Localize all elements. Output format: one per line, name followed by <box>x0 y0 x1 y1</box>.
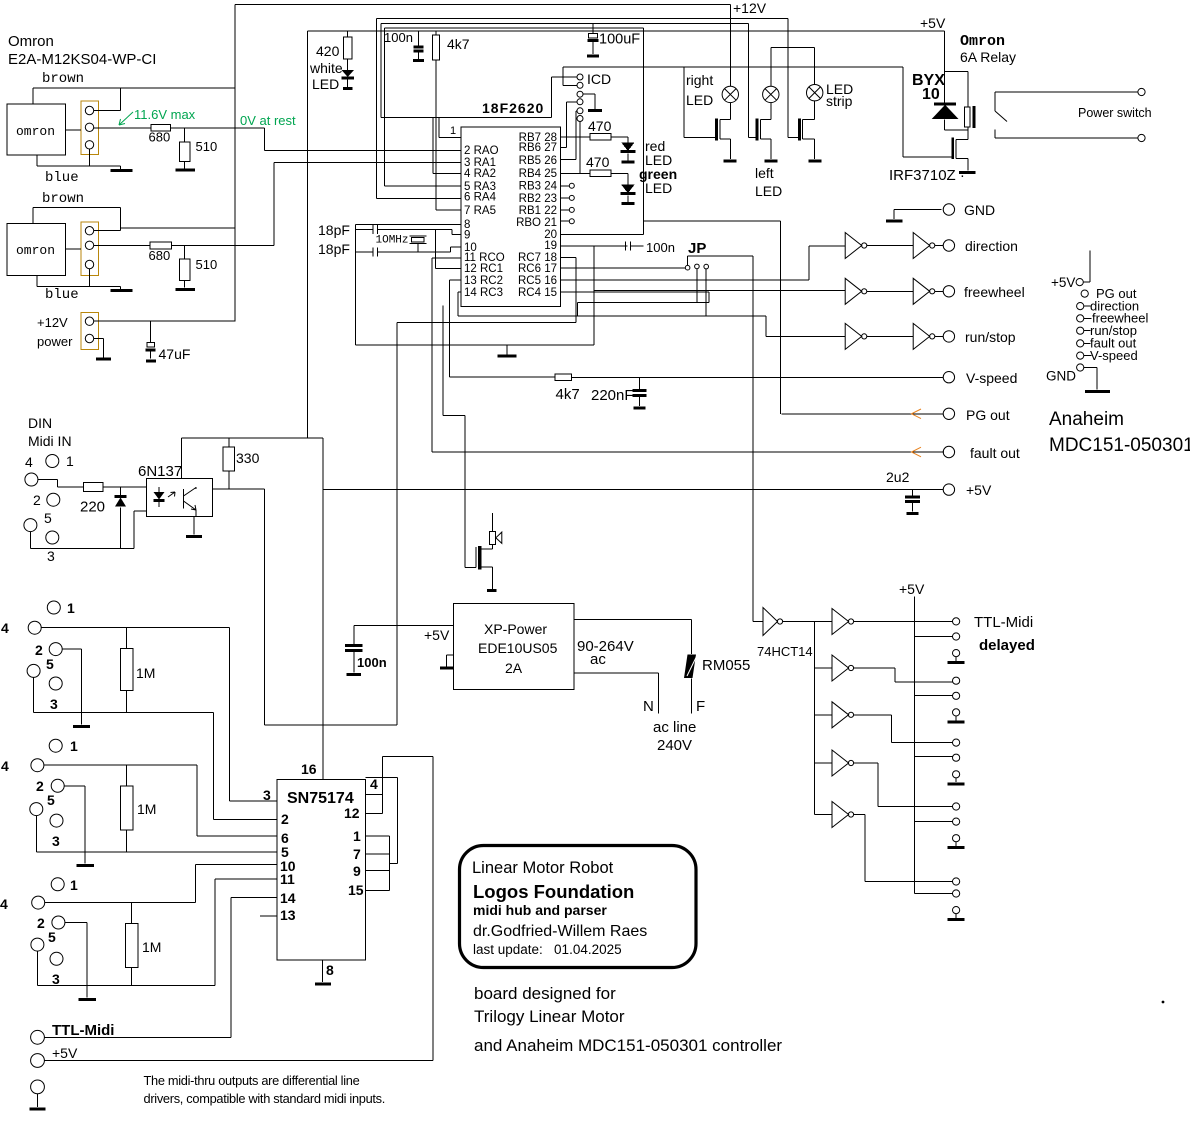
svg-text:+5V: +5V <box>899 581 925 597</box>
svg-text:RC5 16: RC5 16 <box>518 275 557 287</box>
svg-text:4: 4 <box>0 896 8 912</box>
svg-text:1M: 1M <box>137 801 156 817</box>
svg-text:JP: JP <box>688 240 706 257</box>
svg-text:XP-Power: XP-Power <box>484 621 547 637</box>
svg-text:330: 330 <box>236 450 260 466</box>
svg-text:1M: 1M <box>136 665 155 681</box>
svg-text:680: 680 <box>149 248 171 263</box>
svg-text:1: 1 <box>70 738 78 754</box>
svg-text:V-speed: V-speed <box>966 370 1017 386</box>
svg-text:brown: brown <box>42 191 84 207</box>
svg-text:420: 420 <box>316 43 340 59</box>
svg-text:and Anaheim MDC151-050301 cont: and Anaheim MDC151-050301 controller <box>474 1036 782 1055</box>
svg-text:IRF3710Z ·: IRF3710Z · <box>889 167 965 184</box>
svg-text:9: 9 <box>464 230 470 242</box>
svg-text:10: 10 <box>922 86 940 103</box>
svg-text:RB5 26: RB5 26 <box>519 155 557 167</box>
svg-text:11.6V max: 11.6V max <box>134 107 196 122</box>
svg-text:5: 5 <box>46 656 54 672</box>
svg-text:white: white <box>309 60 343 76</box>
svg-text:E2A-M12KS04-WP-CI: E2A-M12KS04-WP-CI <box>8 51 156 68</box>
svg-text:220: 220 <box>80 499 105 516</box>
svg-text:+12V: +12V <box>733 0 767 16</box>
svg-text:13: 13 <box>280 907 296 923</box>
svg-text:3: 3 <box>52 833 60 849</box>
svg-text:8: 8 <box>326 962 334 978</box>
svg-text:omron: omron <box>16 243 55 258</box>
svg-text:4 RA2: 4 RA2 <box>464 168 496 180</box>
svg-text:+12V: +12V <box>37 315 68 330</box>
svg-text:+5V: +5V <box>966 482 992 498</box>
svg-text:RBO 21: RBO 21 <box>516 217 557 229</box>
svg-text:2: 2 <box>36 778 44 794</box>
svg-text:510: 510 <box>196 139 218 154</box>
svg-text:right: right <box>686 72 713 88</box>
svg-text:TTL-Midi: TTL-Midi <box>52 1022 114 1039</box>
svg-text:1: 1 <box>70 877 78 893</box>
svg-text:dr.Godfried-Willem Raes: dr.Godfried-Willem Raes <box>473 923 647 940</box>
svg-text:2: 2 <box>33 492 41 508</box>
svg-text:4: 4 <box>370 776 378 792</box>
svg-text:ac line: ac line <box>653 719 696 736</box>
svg-text:Linear Motor Robot: Linear Motor Robot <box>472 859 614 877</box>
svg-text:100uF: 100uF <box>599 32 640 48</box>
svg-text:100n: 100n <box>357 655 387 670</box>
svg-text:freewheel: freewheel <box>964 284 1025 300</box>
svg-text:4k7: 4k7 <box>556 386 580 403</box>
svg-text:3: 3 <box>263 787 271 803</box>
svg-text:ac: ac <box>590 651 606 668</box>
svg-text:omron: omron <box>16 124 55 139</box>
svg-text:100n: 100n <box>646 240 675 255</box>
svg-text:2: 2 <box>281 811 289 827</box>
svg-text:7: 7 <box>353 846 361 862</box>
svg-text:18pF: 18pF <box>318 222 350 238</box>
svg-text:11: 11 <box>280 871 295 887</box>
svg-text:Power switch: Power switch <box>1078 106 1152 120</box>
svg-text:Omron: Omron <box>960 33 1005 50</box>
svg-text:220nF: 220nF <box>591 387 634 404</box>
svg-text:RB3 24: RB3 24 <box>519 181 558 193</box>
svg-text:LED: LED <box>686 92 713 108</box>
svg-text:GND: GND <box>1046 369 1076 384</box>
svg-text:LED: LED <box>755 183 782 199</box>
svg-text:strip: strip <box>826 93 853 109</box>
svg-text:6A Relay: 6A Relay <box>960 49 1016 65</box>
svg-text:4: 4 <box>25 454 33 470</box>
svg-text:Omron: Omron <box>8 33 54 50</box>
svg-text:7 RA5: 7 RA5 <box>464 205 496 217</box>
svg-text:510: 510 <box>196 257 218 272</box>
svg-text:Anaheim: Anaheim <box>1049 409 1124 430</box>
svg-text:F: F <box>696 698 705 715</box>
svg-text:2 RAO: 2 RAO <box>464 145 499 157</box>
svg-text:RC4 15: RC4 15 <box>518 287 557 299</box>
svg-text:4k7: 4k7 <box>447 36 470 52</box>
svg-text:13 RC2: 13 RC2 <box>464 275 503 287</box>
svg-text:+5V: +5V <box>52 1045 78 1061</box>
svg-text:6 RA4: 6 RA4 <box>464 192 497 204</box>
svg-text:6N137: 6N137 <box>138 463 182 480</box>
svg-text:240V: 240V <box>657 737 692 754</box>
svg-text:drivers, compatible with stand: drivers, compatible with standard midi i… <box>144 1091 386 1106</box>
svg-text:3: 3 <box>50 696 58 712</box>
svg-text:delayed: delayed <box>979 637 1035 654</box>
svg-text:board designed for: board designed for <box>474 984 616 1003</box>
svg-text:2A: 2A <box>505 660 523 676</box>
svg-text:DIN: DIN <box>28 415 52 431</box>
svg-text:RB4 25: RB4 25 <box>519 168 557 180</box>
svg-text:blue: blue <box>45 170 79 186</box>
svg-text:RB2 23: RB2 23 <box>519 193 557 205</box>
svg-text:12: 12 <box>344 805 360 821</box>
svg-text:1: 1 <box>450 125 456 137</box>
svg-text:12 RC1: 12 RC1 <box>464 263 503 275</box>
svg-text:V-speed: V-speed <box>1090 348 1138 363</box>
svg-text:18F2620: 18F2620 <box>482 100 544 116</box>
svg-text:4: 4 <box>1 758 9 774</box>
svg-text:TTL-Midi: TTL-Midi <box>974 614 1033 631</box>
svg-text:brown: brown <box>42 71 84 87</box>
svg-text:LED: LED <box>312 76 339 92</box>
svg-text:EDE10US05: EDE10US05 <box>478 640 558 656</box>
svg-text:GND: GND <box>964 202 995 218</box>
svg-text:680: 680 <box>149 130 171 145</box>
svg-text:left: left <box>755 165 774 181</box>
svg-text:18pF: 18pF <box>318 241 350 257</box>
svg-text:1M: 1M <box>142 939 161 955</box>
svg-text:midi hub and parser: midi hub and parser <box>473 902 607 918</box>
svg-text:power: power <box>37 334 73 349</box>
svg-text:N: N <box>643 698 654 715</box>
svg-text:RC6 17: RC6 17 <box>518 263 557 275</box>
svg-text:PG out: PG out <box>966 407 1010 423</box>
svg-text:RM055: RM055 <box>702 657 750 674</box>
svg-text:3: 3 <box>47 548 55 564</box>
svg-text:RB6 27: RB6 27 <box>519 142 557 154</box>
svg-text:+5V: +5V <box>920 15 946 31</box>
svg-text:RB1 22: RB1 22 <box>519 205 557 217</box>
svg-text:last update: 01.04.2025: last update: 01.04.2025 <box>473 942 622 957</box>
svg-text:5: 5 <box>44 510 52 526</box>
svg-text:14 RC3: 14 RC3 <box>464 287 503 299</box>
svg-text:1: 1 <box>67 600 75 616</box>
svg-text:3: 3 <box>52 971 60 987</box>
svg-text:0V at rest: 0V at rest <box>240 113 296 128</box>
svg-text:direction: direction <box>965 238 1018 254</box>
svg-text:+5V: +5V <box>1051 275 1075 290</box>
svg-text:Midi IN: Midi IN <box>28 433 72 449</box>
svg-text:Logos Foundation: Logos Foundation <box>473 881 634 902</box>
svg-text:74HCT14: 74HCT14 <box>757 644 813 659</box>
svg-text:4: 4 <box>1 620 9 636</box>
svg-text:+5V: +5V <box>424 627 450 643</box>
svg-text:2: 2 <box>37 915 45 931</box>
svg-text:LED: LED <box>645 180 672 196</box>
svg-text:14: 14 <box>280 890 296 906</box>
svg-text:47uF: 47uF <box>159 346 191 362</box>
svg-text:19: 19 <box>544 240 557 252</box>
svg-text:1OMHz: 1OMHz <box>376 235 409 247</box>
svg-text:2u2: 2u2 <box>886 469 910 485</box>
svg-text:470: 470 <box>588 118 612 134</box>
svg-text:1: 1 <box>66 453 74 469</box>
svg-text:100n: 100n <box>384 30 413 45</box>
svg-text:ICD: ICD <box>587 71 611 87</box>
svg-text:The midi-thru outputs are diff: The midi-thru outputs are differential l… <box>144 1073 360 1088</box>
svg-text:Trilogy Linear Motor: Trilogy Linear Motor <box>474 1007 625 1026</box>
svg-text:9: 9 <box>353 863 361 879</box>
svg-text:2: 2 <box>35 642 43 658</box>
svg-text:fault out: fault out <box>970 445 1020 461</box>
svg-text:blue: blue <box>45 287 79 303</box>
svg-text:MDC151-050301: MDC151-050301 <box>1049 435 1190 456</box>
svg-text:5: 5 <box>48 929 56 945</box>
svg-text:15: 15 <box>348 882 364 898</box>
svg-text:1: 1 <box>353 828 361 844</box>
svg-text:run/stop: run/stop <box>965 329 1016 345</box>
svg-text:470: 470 <box>586 154 610 170</box>
svg-text:16: 16 <box>301 761 317 777</box>
svg-text:5: 5 <box>47 792 55 808</box>
